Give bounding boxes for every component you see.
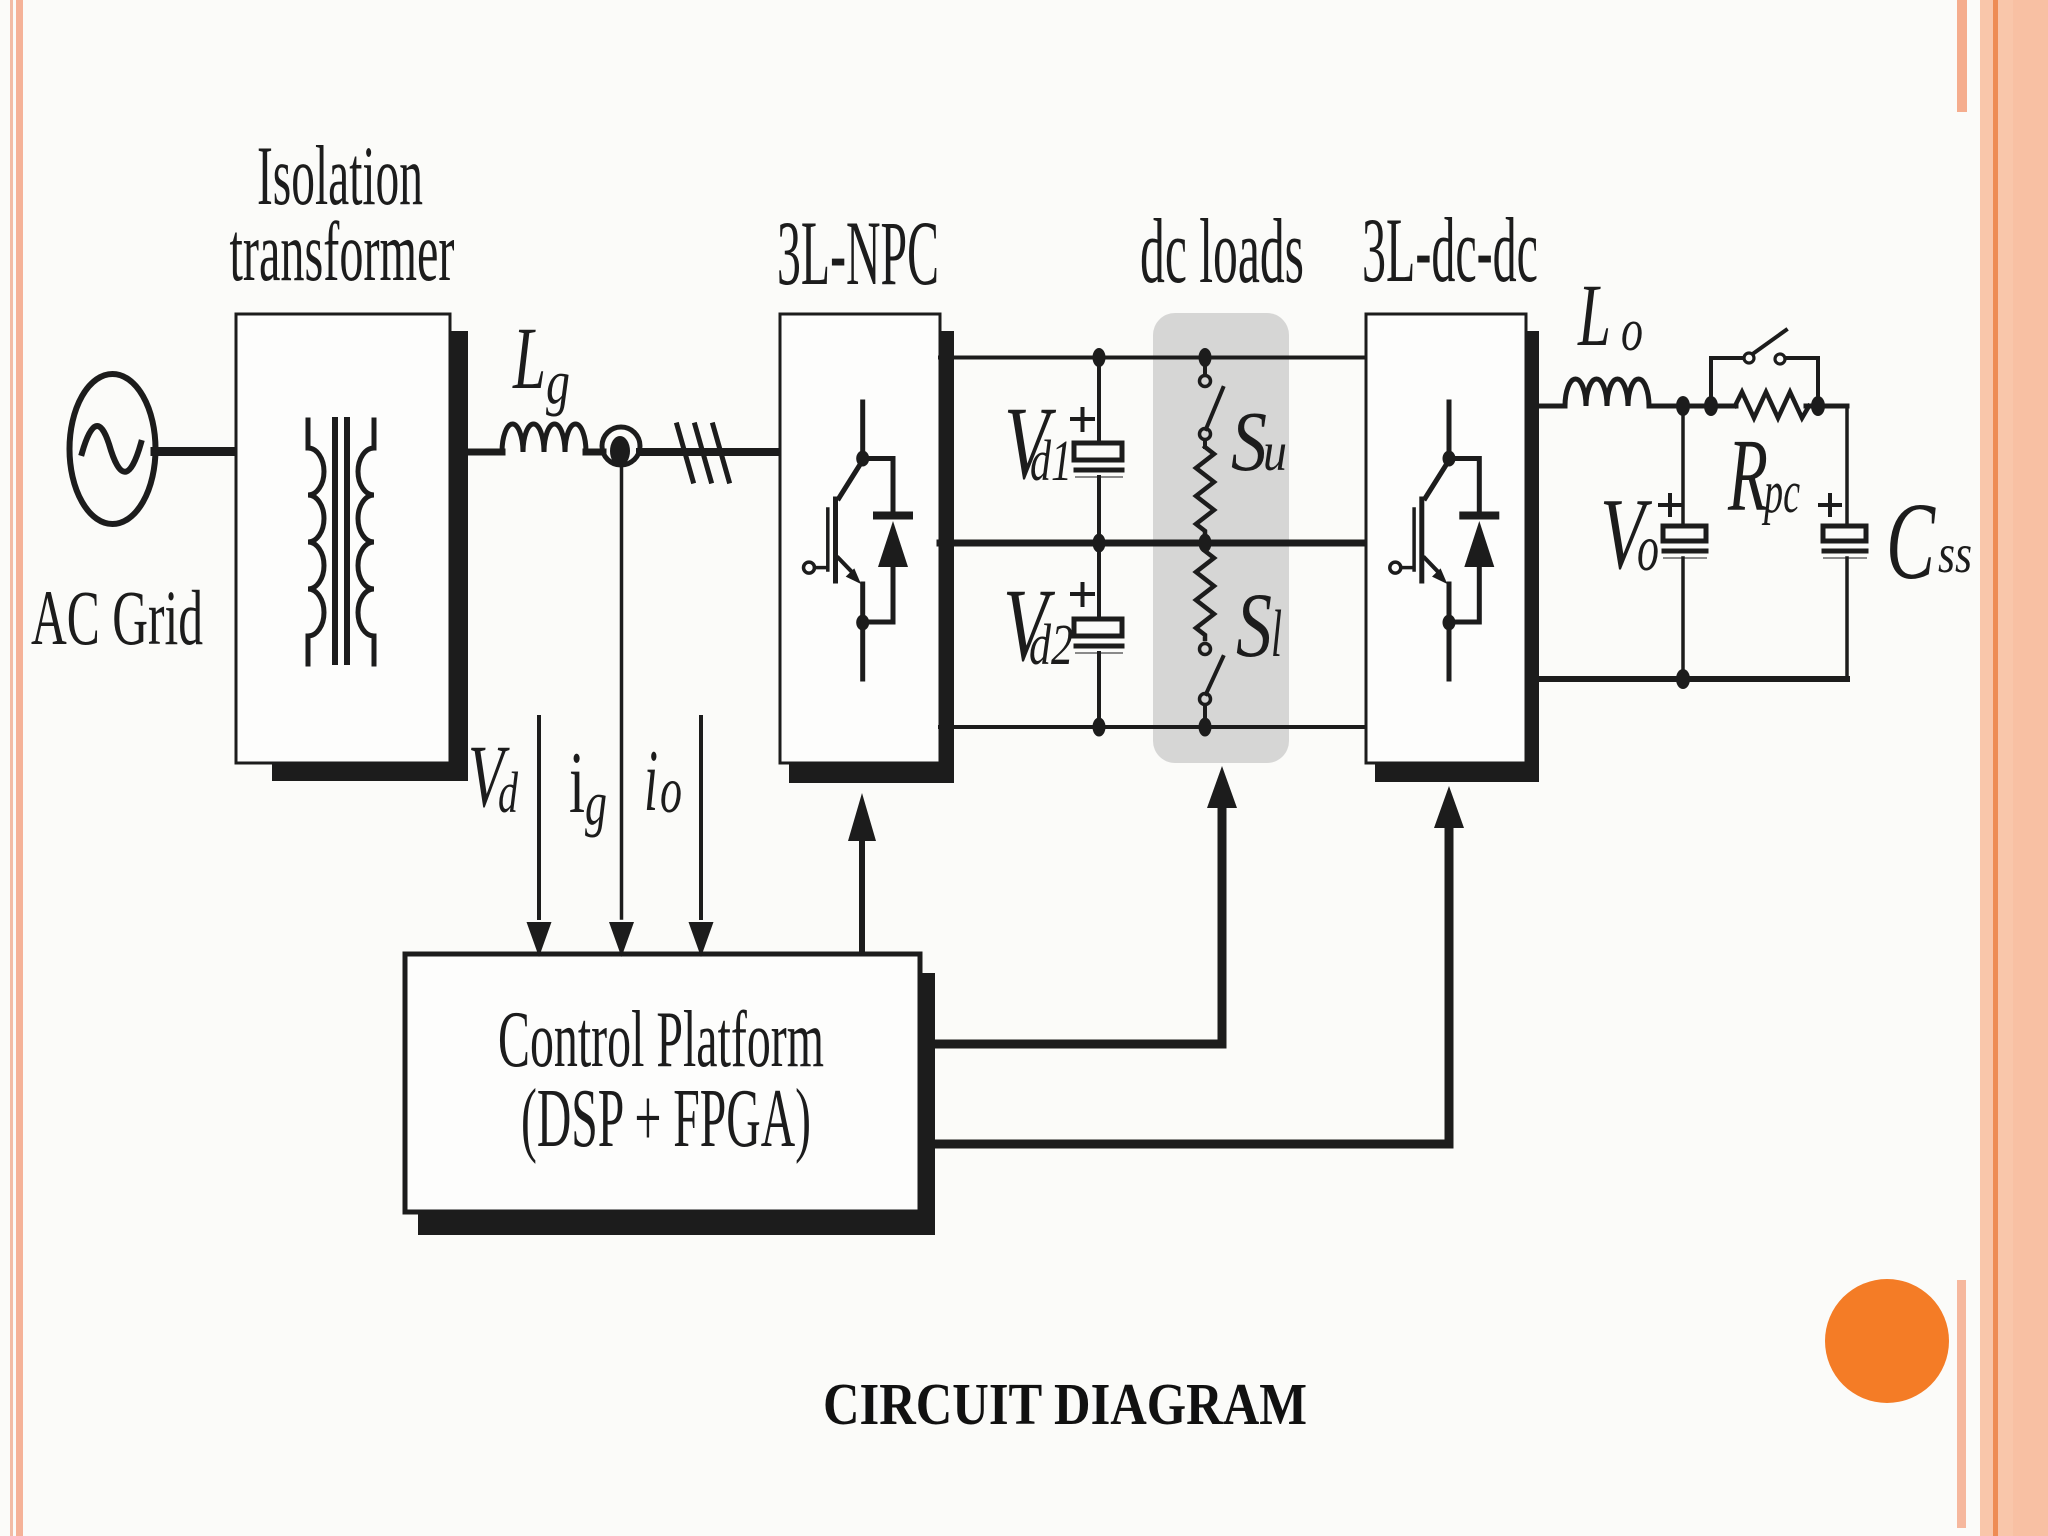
svg-text:transformer: transformer bbox=[230, 205, 455, 299]
transformer T1 secondary winding bbox=[358, 420, 374, 664]
node dot top wire / Vd1 bbox=[1093, 348, 1106, 367]
transformer T1 box bbox=[236, 314, 450, 763]
plus sign Vd1 bbox=[1072, 417, 1093, 421]
svg-text:R: R bbox=[1727, 418, 1768, 533]
svg-text:S: S bbox=[1236, 574, 1272, 676]
inductor Lo bbox=[1565, 379, 1649, 406]
svg-text:i: i bbox=[569, 735, 585, 832]
capacitor Vo bbox=[1663, 526, 1706, 541]
capacitor Css bbox=[1823, 526, 1866, 541]
plus sign Vo bbox=[1660, 503, 1680, 507]
current sensor ig dot bbox=[610, 436, 630, 466]
signal arrow Vd down bbox=[537, 717, 541, 918]
gate wire to dc loads bbox=[931, 806, 1222, 1044]
capacitor Vo branch bbox=[1681, 406, 1685, 526]
wire AC source to transformer bbox=[155, 447, 236, 456]
wire Lo to Vo node bbox=[1649, 404, 1736, 409]
dc link mid wire bbox=[940, 540, 1366, 547]
converter U2 3L-dc-dc box bbox=[1366, 314, 1526, 763]
wire Lg to current sensor bbox=[586, 449, 603, 456]
capacitor Vd1 bbox=[1074, 443, 1122, 460]
gate arrow to 3L-NPC up bbox=[859, 838, 865, 953]
svg-text:g: g bbox=[585, 770, 607, 838]
node dot return/Vo bbox=[1676, 669, 1690, 689]
node dot bottom wire / Vd2 bbox=[1093, 718, 1106, 737]
converter U1 3L-NPC shadow bbox=[789, 331, 954, 783]
capacitor Vd2 bbox=[1074, 619, 1122, 636]
dc link top wire bbox=[940, 356, 1366, 360]
node dot Rpc left bbox=[1704, 396, 1718, 416]
wire transformer to Lg bbox=[468, 449, 502, 456]
three-phase slash marks bbox=[677, 425, 693, 481]
svg-text:o: o bbox=[660, 754, 682, 827]
svg-text:g: g bbox=[546, 349, 570, 417]
capacitor Css branch bbox=[1845, 406, 1849, 526]
inductor Lg bbox=[502, 424, 586, 452]
svg-text:u: u bbox=[1263, 421, 1287, 482]
svg-text:pc: pc bbox=[1761, 459, 1800, 525]
gate wire to 3L-dc-dc bbox=[931, 826, 1449, 1144]
transformer T1 core bbox=[332, 420, 338, 662]
wire dc-dc to Lo bbox=[1539, 404, 1565, 409]
node dot dc loads mid bbox=[1199, 534, 1212, 553]
svg-text:3L-dc-dc: 3L-dc-dc bbox=[1362, 199, 1538, 301]
current sensor ig ring bbox=[602, 427, 640, 465]
svg-text:i: i bbox=[644, 733, 658, 830]
svg-text:d1: d1 bbox=[1030, 428, 1072, 493]
node dot Vo bbox=[1676, 396, 1690, 416]
svg-text:S: S bbox=[1231, 393, 1267, 489]
switch Sl bbox=[1200, 644, 1211, 655]
svg-text:l: l bbox=[1271, 597, 1282, 671]
svg-text:C: C bbox=[1886, 480, 1936, 602]
signal arrow ig down (from sensor) bbox=[620, 466, 624, 918]
IGBT Q2 with diode (inside 3L-dc-dc) bbox=[1390, 402, 1496, 679]
control platform shadow bbox=[418, 973, 935, 1235]
node dot Rpc right bbox=[1811, 396, 1825, 416]
resistor lower load bbox=[1196, 551, 1214, 639]
svg-text:L: L bbox=[1577, 267, 1611, 365]
control platform box bbox=[405, 954, 920, 1212]
node dot mid wire / Vd2 bbox=[1093, 534, 1106, 553]
svg-text:o: o bbox=[1637, 512, 1659, 585]
plus sign Css bbox=[1820, 503, 1840, 507]
bottom return wire bbox=[1539, 676, 1847, 682]
svg-text:d2: d2 bbox=[1029, 612, 1073, 677]
svg-text:3L-NPC: 3L-NPC bbox=[777, 202, 939, 304]
svg-text:dc loads: dc loads bbox=[1140, 200, 1304, 302]
transformer T1 primary winding bbox=[308, 420, 324, 664]
switch Su bbox=[1203, 357, 1207, 375]
capacitor Vd2 branch wire bbox=[1097, 543, 1101, 619]
svg-text:ss: ss bbox=[1938, 523, 1972, 584]
svg-text:d: d bbox=[498, 760, 519, 825]
IGBT Q1 with diode (inside 3L-NPC) bbox=[804, 402, 910, 679]
converter U2 3L-dc-dc shadow bbox=[1375, 331, 1539, 782]
resistor upper load bbox=[1196, 447, 1214, 535]
signal arrow io down bbox=[699, 717, 703, 918]
svg-text:Control Platform: Control Platform bbox=[498, 996, 824, 1084]
node dot dc loads top bbox=[1199, 348, 1212, 367]
transformer T1 shadow bbox=[272, 331, 468, 781]
plus sign Vd2 bbox=[1072, 592, 1093, 596]
wire Rpc to Css corner bbox=[1806, 404, 1847, 409]
node dot dc loads bottom bbox=[1199, 718, 1212, 737]
svg-text:L: L bbox=[512, 310, 546, 408]
svg-text:(DSP + FPGA): (DSP + FPGA) bbox=[521, 1072, 811, 1165]
converter U1 3L-NPC box bbox=[780, 314, 940, 763]
svg-text:CIRCUIT DIAGRAM: CIRCUIT DIAGRAM bbox=[823, 1371, 1307, 1437]
wire sensor to NPC bbox=[640, 448, 780, 456]
switch across Rpc bbox=[1711, 358, 1742, 406]
svg-text:AC Grid: AC Grid bbox=[31, 574, 203, 661]
resistor Rpc bbox=[1735, 392, 1809, 418]
AC source V1 bbox=[70, 374, 156, 524]
svg-text:o: o bbox=[1621, 297, 1643, 363]
dc loads gray panel bbox=[1153, 313, 1289, 763]
dc link bottom wire bbox=[940, 725, 1366, 729]
capacitor Vd1 branch wire bbox=[1097, 357, 1101, 443]
